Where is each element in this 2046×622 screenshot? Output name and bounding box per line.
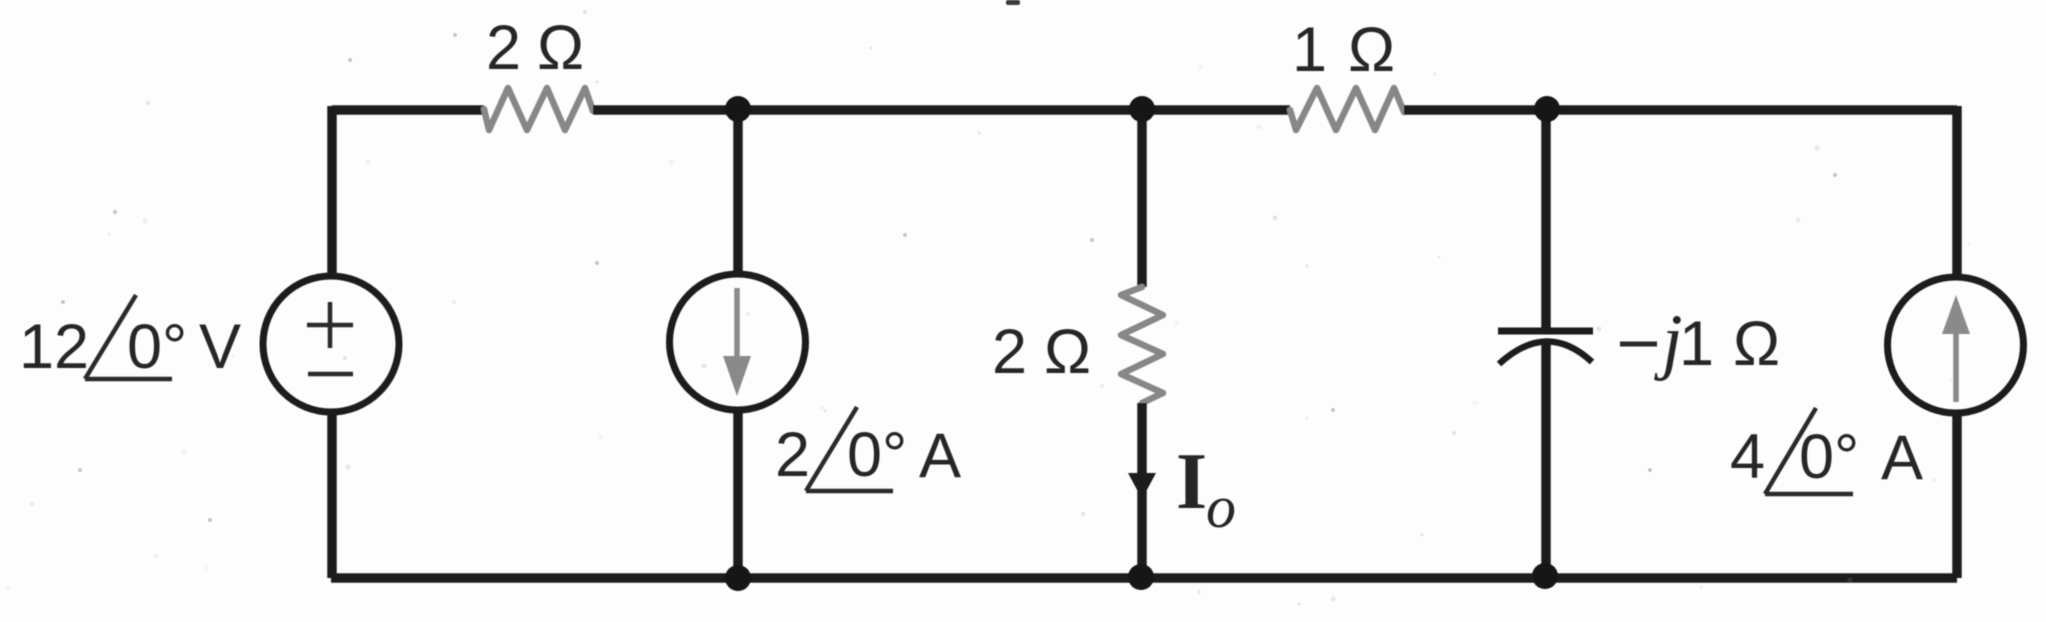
wire branch I1 top <box>733 110 743 272</box>
C1 minus sign of label <box>1620 342 1657 347</box>
svg-text:I: I <box>1176 438 1207 526</box>
svg-text:2: 2 <box>992 317 1027 387</box>
capacitor C1 top plate <box>1498 328 1593 335</box>
wire left bottom <box>327 412 337 578</box>
node A top junction <box>725 96 751 122</box>
I1 arrow shaft <box>734 288 740 360</box>
wire bottom <box>331 573 1957 583</box>
current Io arrow head <box>1128 473 1156 499</box>
wire branch I1 bottom <box>733 412 743 578</box>
svg-text:Ω: Ω <box>1733 309 1780 379</box>
svg-text:0°: 0° <box>1799 422 1859 492</box>
resistor R1 2ohm zigzag <box>484 88 593 130</box>
wire branch C1 bottom <box>1541 342 1551 578</box>
voltage source V1 circle <box>263 276 399 412</box>
svg-text:2: 2 <box>775 420 810 490</box>
node F bottom junction <box>1532 563 1558 589</box>
svg-text:V: V <box>199 312 241 382</box>
svg-text:A: A <box>919 421 961 491</box>
svg-text:4: 4 <box>1730 422 1765 492</box>
I2 arrow head <box>1942 295 1970 334</box>
node B top junction <box>1129 96 1155 122</box>
V1 plus sign <box>307 302 353 348</box>
wire top left segment <box>332 105 484 115</box>
svg-text:Ω: Ω <box>537 13 584 83</box>
current source I2 circle <box>1888 277 2024 413</box>
current source I1 circle <box>670 274 806 410</box>
svg-text:Ω: Ω <box>1348 15 1395 85</box>
wire left top <box>327 106 337 276</box>
I1 arrow head <box>723 356 751 396</box>
resistor R3 2ohm vertical zigzag <box>1121 287 1163 403</box>
svg-text:Ω: Ω <box>1044 317 1091 387</box>
node E bottom junction <box>1128 564 1154 590</box>
svg-text:1: 1 <box>1292 15 1327 85</box>
wire branch R3 bottom <box>1137 403 1147 578</box>
scan speck top <box>1006 0 1020 5</box>
capacitor C1 bottom plate arc <box>1499 341 1592 364</box>
svg-text:0°: 0° <box>127 312 187 382</box>
I2 arrow shaft <box>1953 330 1959 402</box>
svg-text:0°: 0° <box>847 420 907 490</box>
svg-text:o: o <box>1206 474 1236 540</box>
V1 angle symbol <box>85 295 172 379</box>
I2 angle symbol <box>1765 408 1853 494</box>
svg-text:2: 2 <box>486 13 521 83</box>
wire branch C1 top <box>1541 110 1551 328</box>
wire top right segment <box>1404 105 1957 115</box>
I1 angle symbol <box>806 407 893 491</box>
svg-text:1: 1 <box>1679 309 1714 379</box>
wire right top <box>1952 106 1962 279</box>
wire right bottom <box>1952 411 1962 578</box>
node D bottom junction <box>725 565 751 591</box>
node C top junction <box>1534 96 1560 122</box>
wire branch R3 top <box>1137 110 1147 287</box>
wire top middle segment <box>593 105 1290 115</box>
scan dust dots <box>61 33 1837 522</box>
svg-text:A: A <box>1881 423 1923 493</box>
resistor R2 1ohm zigzag <box>1290 88 1404 130</box>
V1 minus sign <box>308 372 353 377</box>
svg-text:12: 12 <box>19 312 89 382</box>
